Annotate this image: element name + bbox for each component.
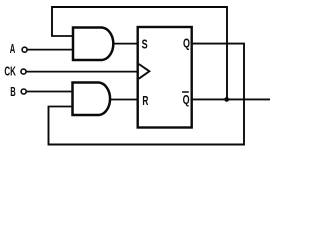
- input terminal B: [21, 89, 26, 94]
- junction node (Q-bar feedback tap): [224, 97, 229, 102]
- wire B to gate U2: [26, 91, 73, 93]
- wire U2 output to R: [111, 99, 138, 101]
- clock triangle pin U3: [139, 64, 150, 79]
- svg-text:S: S: [142, 36, 148, 51]
- svg-text:B: B: [10, 84, 16, 99]
- svg-text:CK: CK: [4, 64, 16, 79]
- wire Q-bar feedback to U1 (top loop): [52, 7, 227, 99]
- wire Q-bar output: [192, 98, 271, 100]
- wire feedback into U1 top input: [51, 35, 74, 37]
- wire CK to U3 clock: [26, 71, 138, 73]
- wire feedback into U2 bottom input: [48, 106, 73, 108]
- and-gate U2: [73, 83, 111, 116]
- svg-text:R: R: [142, 93, 148, 108]
- input terminal A: [22, 47, 27, 52]
- and-gate U1: [73, 28, 113, 61]
- wire A to gate U1: [27, 49, 74, 51]
- input terminal CK: [21, 69, 26, 74]
- flip-flop U3: [138, 27, 192, 128]
- pin label Q-bar: [182, 92, 190, 107]
- svg-text:Q: Q: [183, 92, 190, 107]
- wire Q feedback to U2 (bottom loop): [49, 44, 245, 145]
- wire U1 output to S: [115, 43, 139, 45]
- svg-text:Q: Q: [183, 35, 190, 50]
- svg-text:A: A: [10, 41, 16, 56]
